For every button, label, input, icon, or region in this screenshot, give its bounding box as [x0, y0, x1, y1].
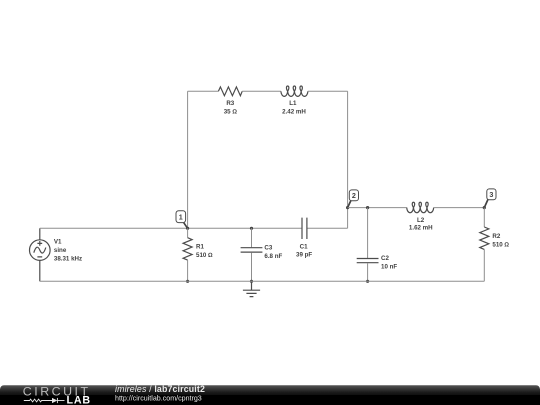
svg-text:2.42 mH: 2.42 mH — [282, 109, 306, 116]
svg-text:1: 1 — [179, 212, 183, 221]
wire top horizontal left segment — [188, 90, 219, 92]
svg-text:R3: R3 — [226, 100, 234, 107]
svg-text:R1: R1 — [196, 244, 204, 251]
svg-text:39 pF: 39 pF — [296, 252, 312, 259]
wire top horizontal right segment — [308, 90, 348, 92]
svg-text:35 Ω: 35 Ω — [224, 109, 238, 116]
ground — [243, 281, 260, 296]
svg-text:3: 3 — [489, 190, 493, 199]
svg-text:V1: V1 — [54, 239, 62, 246]
capacitor C1 — [296, 218, 312, 259]
resistor R2 — [480, 208, 510, 282]
voltage source V1 — [30, 228, 83, 281]
svg-text:510 Ω: 510 Ω — [196, 252, 213, 259]
svg-text:6.8 nF: 6.8 nF — [264, 253, 282, 260]
svg-text:LAB: LAB — [67, 395, 91, 405]
wire top horizontal middle segment — [242, 90, 281, 92]
node 1 — [176, 211, 188, 229]
svg-text:C1: C1 — [300, 243, 308, 250]
svg-text:sine: sine — [54, 247, 67, 254]
junction dot C2 top — [366, 206, 369, 209]
resistor R3 — [218, 87, 242, 116]
node 2 — [348, 190, 359, 208]
junction dot node 3 — [483, 206, 486, 209]
svg-text:2: 2 — [352, 191, 356, 200]
wire right vertical of top loop — [347, 91, 349, 228]
junction dot C2 bottom — [366, 280, 369, 283]
wire middle horizontal (C1 to right vertical) — [307, 227, 348, 229]
logo circuit squiggle with resistor and diode — [24, 398, 65, 403]
wire middle horizontal (V1 to C1) — [40, 227, 302, 229]
junction dot R1 bottom — [186, 280, 189, 283]
svg-text:http://circuitlab.com/cpntrg3: http://circuitlab.com/cpntrg3 — [115, 395, 202, 403]
svg-text:510 Ω: 510 Ω — [492, 242, 509, 249]
junction dot C3 top — [250, 227, 253, 230]
resistor R1 — [183, 228, 213, 281]
node 3 — [484, 189, 496, 208]
svg-text:R2: R2 — [492, 233, 500, 240]
inductor L1 — [281, 86, 308, 116]
svg-text:C3: C3 — [264, 245, 272, 252]
capacitor C3 — [241, 228, 283, 281]
wire mid-right horizontal (L2 to node3) — [434, 207, 485, 209]
svg-text:L1: L1 — [289, 100, 297, 107]
svg-text:38.31 kHz: 38.31 kHz — [54, 255, 82, 262]
svg-text:10 nF: 10 nF — [381, 263, 397, 270]
wire bottom horizontal — [40, 280, 485, 282]
junction dot node 2 — [346, 206, 349, 209]
svg-text:L2: L2 — [417, 217, 425, 224]
svg-text:1.62 mH: 1.62 mH — [409, 225, 433, 232]
capacitor C2 — [357, 208, 398, 282]
junction dot C3 bottom — [250, 280, 253, 283]
svg-text:C2: C2 — [381, 255, 389, 262]
wire left vertical of top loop — [187, 91, 189, 228]
inductor L2 — [407, 202, 434, 231]
footer bar — [0, 385, 540, 405]
wire mid-right horizontal (node2 to L2) — [348, 207, 407, 209]
svg-text:imireles / lab7circuit2: imireles / lab7circuit2 — [115, 384, 205, 394]
junction dot node 1 — [186, 227, 189, 230]
